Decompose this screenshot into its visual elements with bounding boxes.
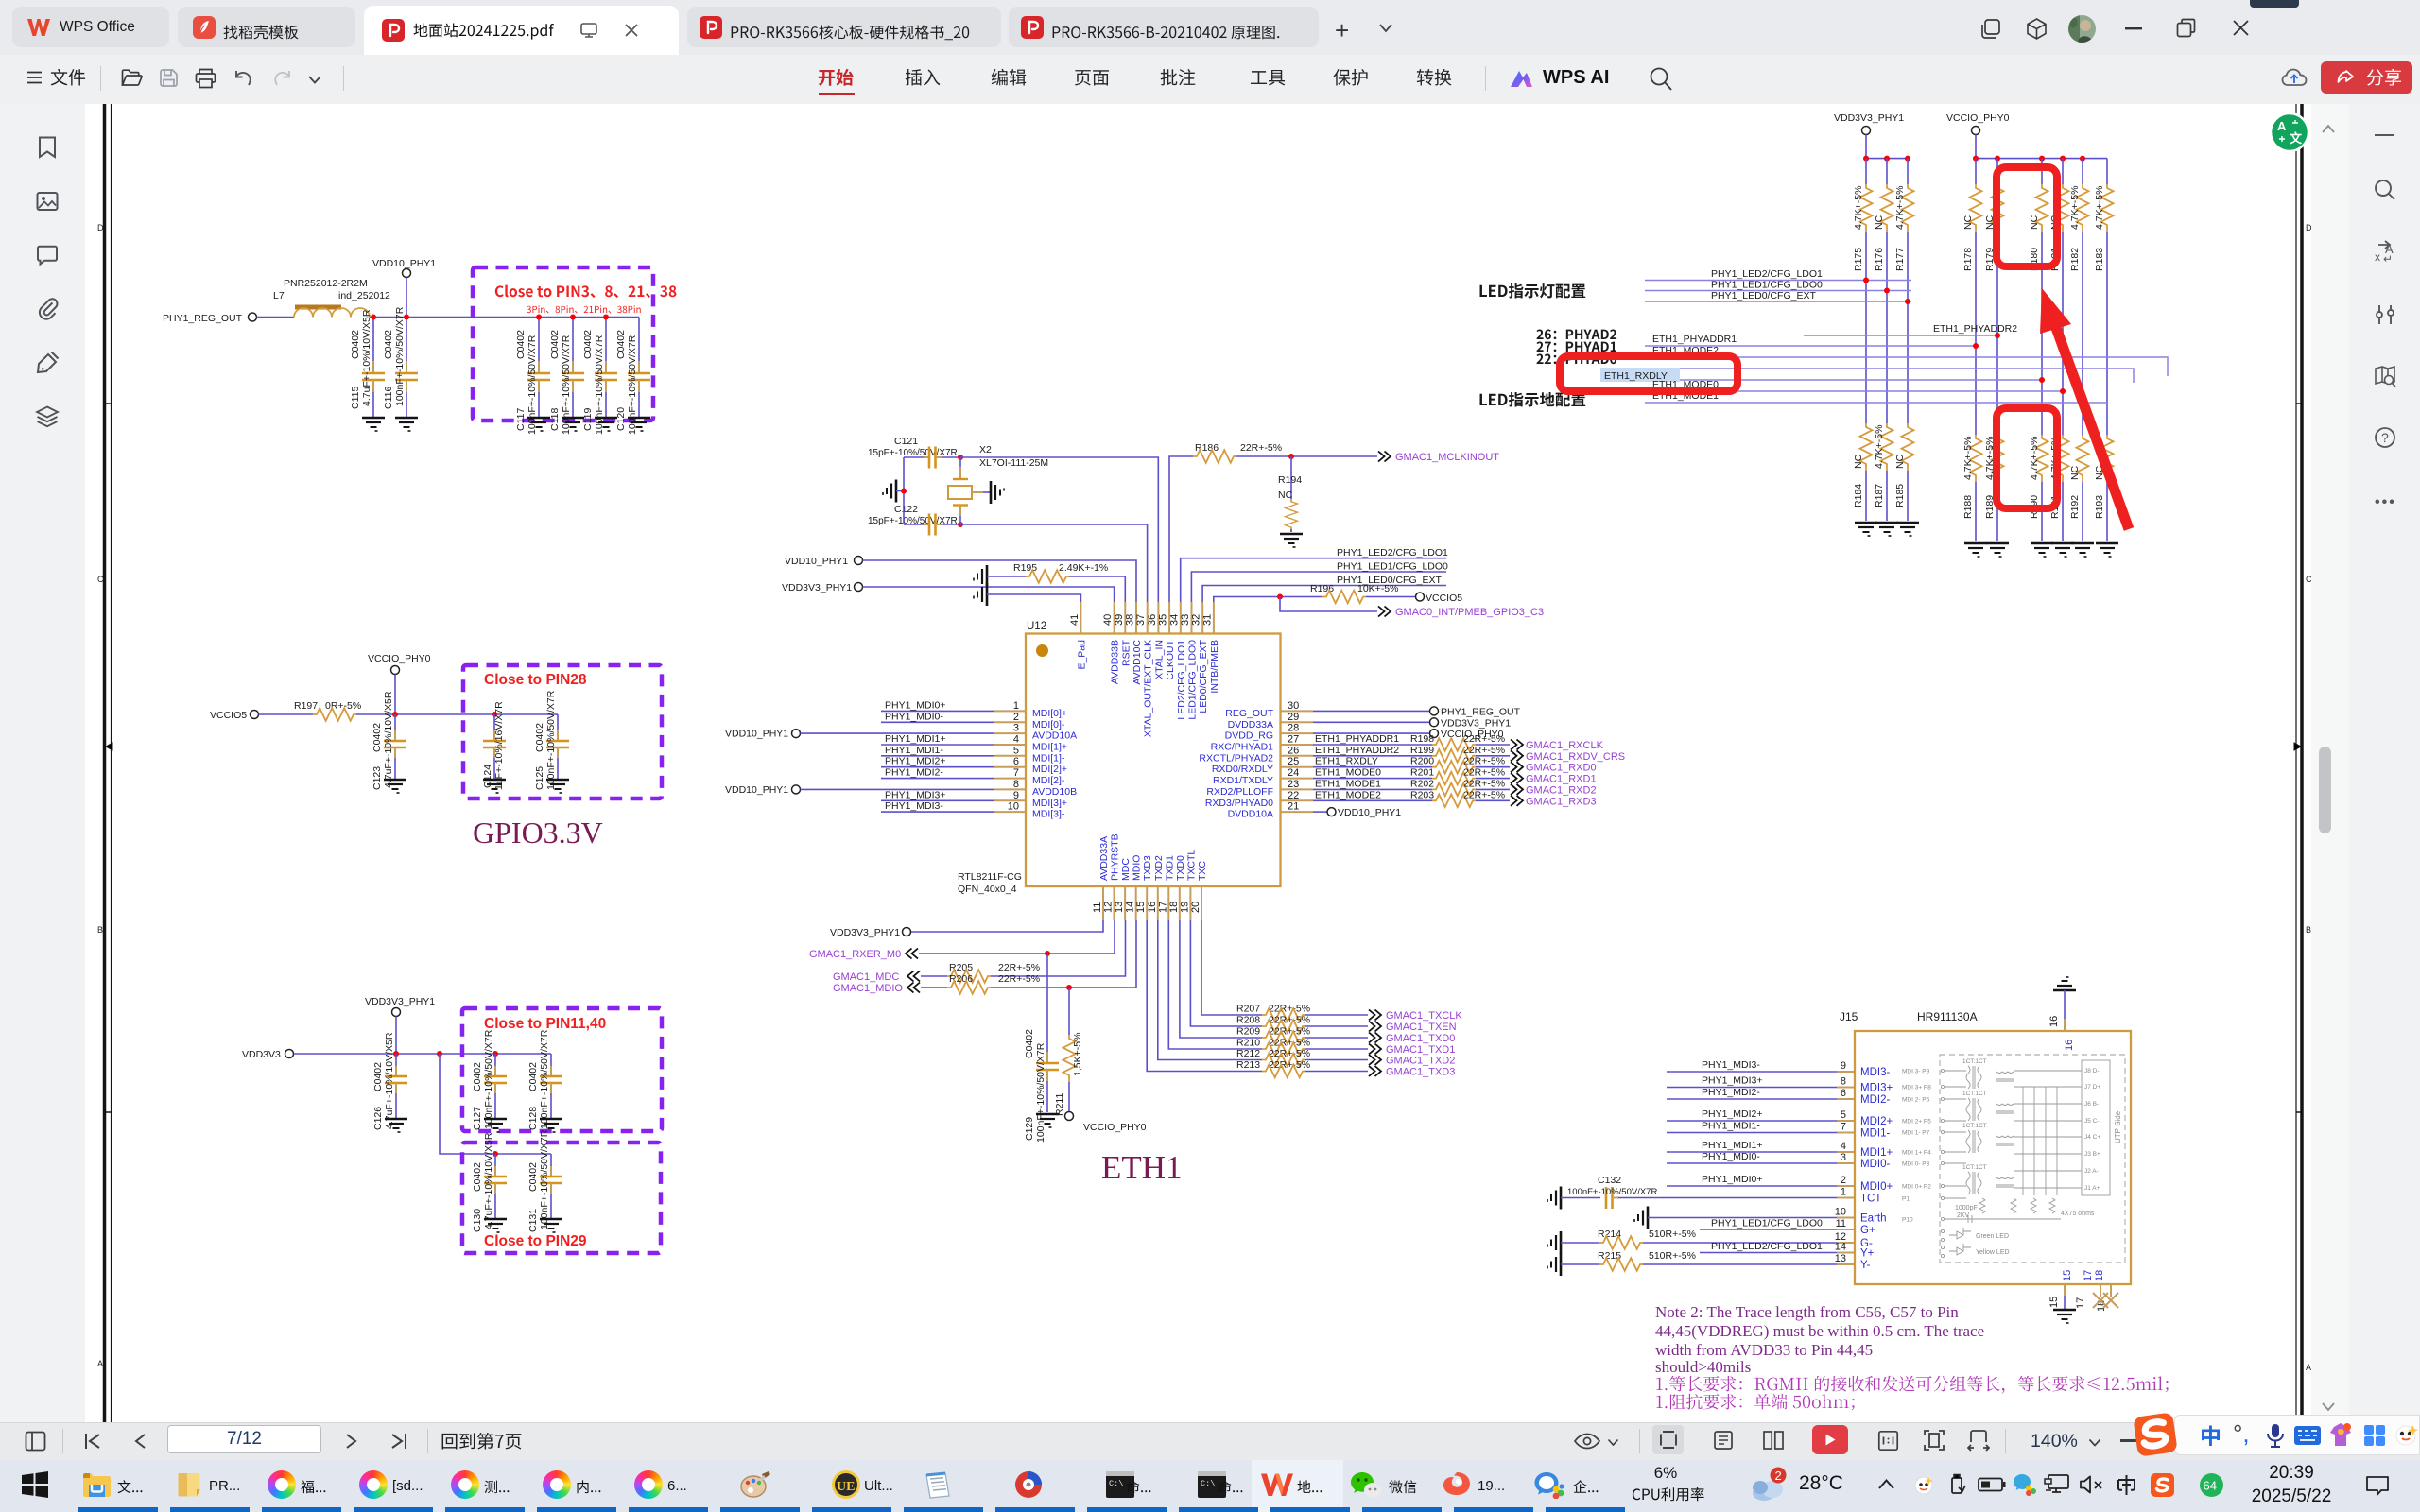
svg-text:J8 D-: J8 D- (2084, 1068, 2100, 1074)
node VDD3V3_PHY1 pin29 (1313, 717, 1511, 729)
svg-text:2KV: 2KV (1957, 1212, 1970, 1219)
wire ETH1_MODE0 (1645, 379, 2066, 394)
svg-text:MDI0+: MDI0+ (1860, 1181, 1893, 1193)
svg-text:NC: NC (1894, 454, 1906, 469)
svg-text:MDI[0]-: MDI[0]- (1032, 719, 1065, 730)
svg-text:C132: C132 (1598, 1175, 1621, 1186)
svg-text:16: 16 (2048, 1016, 2060, 1027)
svg-text:ind_252012: ind_252012 (338, 290, 390, 301)
svg-text:VCCIO5: VCCIO5 (210, 710, 247, 721)
svg-text:C131: C131 (527, 1209, 539, 1232)
svg-text:MDI[2]+: MDI[2]+ (1032, 764, 1067, 775)
resistor R214 510R to pin12 G- (1547, 1228, 1855, 1254)
svg-text:GMAC1_TXD1: GMAC1_TXD1 (1386, 1044, 1455, 1056)
resistor R193 NC (bottom) (2094, 403, 2118, 557)
svg-text:27: 27 (1288, 734, 1299, 746)
svg-text:QFN_40x0_4: QFN_40x0_4 (958, 884, 1017, 895)
svg-text:23: 23 (1288, 779, 1299, 790)
pin 30 REG_OUT (1225, 700, 1313, 719)
capacitor C132 on TCT pin1 (1547, 1175, 1855, 1210)
svg-text:R176: R176 (1874, 248, 1885, 271)
svg-text:NC: NC (2029, 215, 2040, 230)
pin 15 shield ground (2048, 1270, 2076, 1323)
pin 36 XTAL_IN (1147, 602, 1166, 679)
svg-text:C0402: C0402 (527, 1162, 539, 1192)
svg-text:C0402: C0402 (1024, 1029, 1035, 1058)
resistor R186 22R row from pin35 CLKOUT (1169, 456, 1193, 602)
svg-text:P1: P1 (1902, 1196, 1910, 1203)
svg-text:26: 26 (1288, 745, 1299, 756)
svg-text:TXD3: TXD3 (1142, 855, 1153, 881)
pin 18 TXD0 (1168, 855, 1186, 920)
connector J15 body (1840, 1010, 2131, 1284)
svg-text:A: A (97, 1359, 103, 1368)
svg-text:PNR252012-2R2M: PNR252012-2R2M (284, 278, 368, 289)
svg-text:PHY1_LED1/CFG_LDO0: PHY1_LED1/CFG_LDO0 (1711, 1218, 1823, 1229)
svg-text:C119: C119 (582, 408, 594, 431)
svg-text:GMAC0_INT/PMEB_GPIO3_C3: GMAC0_INT/PMEB_GPIO3_C3 (1395, 607, 1544, 618)
transformer inner detail (1902, 1055, 2125, 1263)
red annotation arrow (2040, 288, 2129, 529)
svg-text:Close to PIN28: Close to PIN28 (484, 672, 587, 688)
svg-text:MDI 0- P3: MDI 0- P3 (1902, 1161, 1930, 1168)
svg-text:GMAC1_MDC: GMAC1_MDC (833, 971, 899, 983)
resistor R175 4.7K+-5% (top) (1853, 159, 1873, 281)
resistor R185 NC (bottom) (1894, 301, 1919, 536)
svg-text:C120: C120 (615, 407, 627, 431)
svg-text:VDD3V3: VDD3V3 (242, 1049, 281, 1060)
svg-text:MDI 3+ P8: MDI 3+ P8 (1902, 1085, 1931, 1091)
svg-text:1: 1 (1841, 1187, 1846, 1198)
svg-text:11: 11 (1836, 1218, 1846, 1229)
capacitor C127 (472, 1029, 507, 1132)
svg-text:PHY1_MDI1-: PHY1_MDI1- (885, 745, 943, 756)
resistor R207 22R row GMAC1_TXCLK (1201, 920, 1462, 1022)
node VDD3V3_PHY1 pin11 (830, 920, 1103, 938)
svg-text:MDI[0]+: MDI[0]+ (1032, 708, 1067, 719)
svg-text:x: x (2375, 250, 2380, 264)
svg-text:100nF+-10%/50V/X7R: 100nF+-10%/50V/X7R (627, 335, 638, 435)
svg-text:22R+-5%: 22R+-5% (998, 962, 1040, 973)
svg-text:GMAC1_MDIO: GMAC1_MDIO (833, 983, 903, 994)
svg-text:PHY1_MDI1+: PHY1_MDI1+ (1702, 1140, 1763, 1151)
pin 35 CLKOUT (1158, 602, 1177, 680)
red annotation box over R180 (1996, 167, 2057, 266)
svg-text:AVDD10A: AVDD10A (1032, 730, 1077, 742)
resistor R199 22R row ETH1_PHYADDR2 (1313, 745, 1625, 763)
resistor R203 22R row ETH1_MODE2 (1313, 789, 1597, 807)
svg-text:DVDD_RG: DVDD_RG (1225, 730, 1273, 742)
wire (257, 317, 295, 318)
resistor R176 NC (top) (1874, 159, 1893, 291)
svg-text:A: A (2385, 242, 2394, 256)
svg-text:40: 40 (1102, 614, 1114, 626)
pin 20 TXC (1190, 861, 1208, 920)
svg-text:22: 22 (1288, 790, 1299, 801)
pin 32 LED0/CFG_EXT (1191, 602, 1210, 713)
svg-text:15: 15 (2048, 1297, 2060, 1308)
wire PHY1_MDI0+ to J15 pin 2 (1667, 1174, 1855, 1186)
svg-text:NC: NC (1853, 454, 1864, 469)
svg-text:14: 14 (1835, 1242, 1846, 1253)
svg-text:NC: NC (1962, 215, 1974, 230)
svg-text:J4 C+: J4 C+ (2084, 1134, 2100, 1141)
svg-text:4.7K+-5%: 4.7K+-5% (1894, 186, 1906, 230)
svg-text:PHY1_LED2/CFG_LDO1: PHY1_LED2/CFG_LDO1 (1711, 268, 1823, 280)
svg-text:ETH1_PHYADDR2: ETH1_PHYADDR2 (1315, 745, 1399, 756)
wire PHY1_LED1/CFG_LDO0 (1645, 280, 1911, 291)
svg-text:MDI[3]+: MDI[3]+ (1032, 798, 1067, 809)
svg-text:4.7K+-5%: 4.7K+-5% (2094, 186, 2105, 230)
svg-text:C122: C122 (894, 504, 918, 515)
svg-text:PHY1_MDI3+: PHY1_MDI3+ (1702, 1075, 1763, 1087)
svg-text:PHY1_REG_OUT: PHY1_REG_OUT (163, 313, 243, 324)
svg-text:C128: C128 (527, 1107, 539, 1130)
svg-text:TXCTL: TXCTL (1185, 850, 1197, 881)
svg-text:R194: R194 (1278, 474, 1302, 486)
svg-text:L7: L7 (273, 290, 285, 301)
svg-text:R207: R207 (1236, 1004, 1260, 1015)
svg-text:100nF+-10%/50V/X7R: 100nF+-10%/50V/X7R (1567, 1187, 1657, 1197)
svg-text:C0402: C0402 (472, 1062, 483, 1091)
svg-text:4.7K+-5%: 4.7K+-5% (1962, 437, 1974, 480)
svg-text:10K+-5%: 10K+-5% (1357, 583, 1399, 594)
pin 21 DVDD10A (1228, 801, 1313, 820)
node VDD10_PHY1 pin3 (725, 729, 994, 740)
svg-text:MDIO: MDIO (1132, 855, 1143, 881)
svg-text:Yellow LED: Yellow LED (1976, 1249, 2010, 1256)
pin 22 RXD3/PHYAD0 (1205, 790, 1313, 809)
svg-text:35: 35 (1158, 614, 1169, 626)
resistor R184 NC (bottom) (1853, 281, 1877, 537)
wire PHY1_LED2/CFG_LDO1 (1645, 268, 1911, 281)
svg-text:4.7K+-5%: 4.7K+-5% (2029, 437, 2040, 480)
svg-text:R192: R192 (2069, 495, 2081, 519)
svg-text:22R+-5%: 22R+-5% (1463, 789, 1505, 800)
wire PHY1_LED0/CFG_EXT (1645, 290, 1911, 301)
svg-text:10: 10 (1835, 1207, 1846, 1218)
svg-text:J7 D+: J7 D+ (2084, 1084, 2100, 1091)
svg-text:1CT:1CT: 1CT:1CT (1962, 1058, 1987, 1065)
svg-text:Y-: Y- (1860, 1260, 1871, 1271)
svg-text:MDI1-: MDI1- (1860, 1128, 1890, 1140)
svg-text:Earth: Earth (1860, 1213, 1887, 1225)
svg-text:39: 39 (1114, 614, 1125, 626)
capacitor C115 (350, 309, 385, 431)
svg-text:GMAC1_MCLKINOUT: GMAC1_MCLKINOUT (1395, 452, 1499, 463)
wire PHY1_MDI3+ to J15 pin 8 (1667, 1075, 1855, 1088)
wire VDD3V3_PHY1 bus (1866, 158, 1908, 160)
svg-text:64: 64 (2204, 1479, 2217, 1493)
svg-text:XTAL_OUT/EXT_CLK: XTAL_OUT/EXT_CLK (1143, 640, 1154, 737)
svg-text:6: 6 (1013, 756, 1019, 767)
svg-text:R200: R200 (1410, 756, 1434, 767)
svg-text:510R+-5%: 510R+-5% (1649, 1250, 1696, 1262)
svg-text:RXD0/RXDLY: RXD0/RXDLY (1212, 764, 1273, 775)
resistor R192 NC (bottom) (2069, 403, 2094, 557)
wire left vertical + ground (903, 457, 905, 524)
svg-text:C0402: C0402 (549, 330, 561, 359)
pin 39 RSET (1114, 602, 1132, 666)
pin 41 E_Pad (1069, 602, 1088, 670)
svg-text:R210: R210 (1236, 1038, 1260, 1049)
svg-text:文: 文 (2290, 131, 2303, 146)
pin 31 INTB/PMEB (1201, 602, 1220, 694)
svg-text:C0402: C0402 (515, 330, 527, 359)
pin 26 RXCTL/PHYAD2 (1199, 745, 1313, 764)
svg-text:MDI 2+ P5: MDI 2+ P5 (1902, 1119, 1931, 1125)
wire PHY1_MDI1+ (881, 733, 994, 745)
svg-text:C0402: C0402 (615, 330, 627, 359)
capacitor C122 (868, 504, 960, 536)
svg-text:G+: G+ (1860, 1225, 1875, 1236)
svg-text:DVDD33A: DVDD33A (1228, 719, 1273, 730)
capacitor C121 (868, 436, 960, 469)
svg-text:VCCIO_PHY0: VCCIO_PHY0 (1083, 1122, 1147, 1133)
wire PHY1_MDI3- (881, 800, 994, 812)
resistor R181 NC (top) (2049, 159, 2069, 391)
svg-text:PHY1_MDI0+: PHY1_MDI0+ (885, 699, 946, 711)
svg-text:J6 B-: J6 B- (2084, 1101, 2099, 1108)
svg-text:C117: C117 (515, 408, 527, 431)
svg-text:GMAC1_TXD2: GMAC1_TXD2 (1386, 1056, 1455, 1067)
svg-text:width from AVDD33 to Pin 44,45: width from AVDD33 to Pin 44,45 (1655, 1341, 1873, 1359)
pin 11 AVDD33A (1092, 836, 1110, 920)
pin 13 MDC (1114, 858, 1132, 920)
svg-text:41: 41 (1069, 614, 1080, 626)
svg-text:1000pF: 1000pF (1955, 1205, 1978, 1211)
svg-text:PHY1_MDI2+: PHY1_MDI2+ (1702, 1108, 1763, 1120)
svg-text:ETH1_MODE0: ETH1_MODE0 (1315, 767, 1381, 779)
svg-text:MDI2+: MDI2+ (1860, 1116, 1893, 1127)
resistor R179 NC (top) (1984, 159, 2004, 335)
svg-text:1CT:1CT: 1CT:1CT (1962, 1164, 1987, 1171)
svg-text:5: 5 (1841, 1109, 1846, 1121)
node PHY1_REG_OUT pin30 (1313, 706, 1521, 717)
svg-text:17: 17 (1157, 902, 1168, 913)
pin 5 MDI[1]- (994, 745, 1065, 764)
pin 16 shield ground (2048, 977, 2076, 1051)
svg-text:13: 13 (1835, 1253, 1846, 1264)
resistor R212 22R row GMAC1_TXD2 (1158, 920, 1456, 1067)
svg-text:LED1/CFG_LDO0: LED1/CFG_LDO0 (1187, 640, 1199, 720)
svg-text:VCCIO5: VCCIO5 (1426, 593, 1462, 604)
svg-text:36: 36 (1147, 614, 1158, 626)
svg-text:MDI[3]-: MDI[3]- (1032, 809, 1065, 820)
svg-text:4: 4 (1841, 1141, 1846, 1152)
capacitor C131 (527, 1129, 562, 1232)
svg-text:R193: R193 (2094, 495, 2105, 519)
svg-text:15: 15 (1135, 902, 1147, 913)
svg-text:22R+-5%: 22R+-5% (1269, 1026, 1310, 1038)
pin 1 MDI[0]+ (994, 700, 1067, 719)
svg-text:3: 3 (1013, 723, 1019, 734)
svg-text:XL7OI-111-25M: XL7OI-111-25M (979, 457, 1048, 469)
svg-text:22R+-5%: 22R+-5% (1240, 442, 1282, 454)
svg-text:PHY1_REG_OUT: PHY1_REG_OUT (1441, 706, 1521, 717)
svg-text:10: 10 (1008, 801, 1019, 813)
svg-text:REG_OUT: REG_OUT (1225, 708, 1273, 719)
pin 7 MDI[2]- (994, 767, 1065, 786)
pin 17 TXD1 (1157, 855, 1175, 920)
svg-text:ETH1_RXDLY: ETH1_RXDLY (1315, 756, 1378, 767)
svg-text:MDI3-: MDI3- (1860, 1067, 1890, 1078)
svg-text:C123: C123 (372, 766, 383, 790)
svg-text:VDD3V3_PHY1: VDD3V3_PHY1 (1834, 112, 1904, 124)
wire PHY1_MDI1- to J15 pin 7 (1667, 1121, 1855, 1133)
svg-text:MDI3+: MDI3+ (1860, 1083, 1893, 1094)
wire pin32 LED0 (1202, 586, 1446, 603)
svg-text:GMAC1_TXEN: GMAC1_TXEN (1386, 1022, 1457, 1033)
svg-text:ETH1_PHYADDR2: ETH1_PHYADDR2 (1933, 323, 2017, 335)
svg-text:4.7K+-5%: 4.7K+-5% (1874, 425, 1885, 469)
pin 6 MDI[2]+ (994, 756, 1067, 775)
svg-text:ETH1_PHYADDR1: ETH1_PHYADDR1 (1315, 733, 1399, 745)
svg-text:PHY1_LED1/CFG_LDO0: PHY1_LED1/CFG_LDO0 (1337, 561, 1448, 573)
svg-text:PHY1_LED2/CFG_LDO1: PHY1_LED2/CFG_LDO1 (1337, 547, 1448, 558)
svg-text:ETH1: ETH1 (1101, 1149, 1183, 1186)
wire PHY1_MDI2- (881, 767, 994, 779)
svg-text:1uF+-10%/16V/X7R: 1uF+-10%/16V/X7R (493, 701, 505, 790)
svg-text:J5 C-: J5 C- (2084, 1118, 2100, 1125)
svg-text:VDD10_PHY1: VDD10_PHY1 (725, 729, 788, 740)
node VDD10_PHY1 pin21 (1313, 807, 1401, 818)
pin 37 XTAL_OUT/EXT_CLK (1135, 602, 1154, 737)
resistor R211 1.5K pull to VCCIO_PHY0 (1054, 988, 1147, 1133)
svg-text:TXD0: TXD0 (1175, 855, 1186, 881)
pin 9 MDI[3]+ (994, 790, 1067, 809)
svg-text:22R+-5%: 22R+-5% (1463, 778, 1505, 789)
requirement note line 2 (1656, 1394, 1854, 1410)
wire C122 row to pin37 (960, 524, 1148, 602)
resistor R215 510R to pin13 Y- (1547, 1250, 1855, 1276)
svg-text:NC: NC (2069, 465, 2081, 480)
svg-text:MDI0-: MDI0- (1860, 1159, 1890, 1170)
svg-text:Note 2: The Trace length from: Note 2: The Trace length from C56, C57 t… (1655, 1303, 1959, 1321)
svg-text:PHY1_MDI3+: PHY1_MDI3+ (885, 789, 946, 800)
capacitor C118 (549, 315, 584, 436)
svg-text:33: 33 (1180, 614, 1191, 626)
svg-text:9: 9 (1013, 790, 1019, 801)
svg-text:R184: R184 (1853, 484, 1864, 507)
svg-text:J3 B+: J3 B+ (2084, 1151, 2100, 1158)
resistor R191 4.7K+-5% (bottom) (2049, 391, 2074, 557)
svg-text:100nF+-10%/50V/X7R: 100nF+-10%/50V/X7R (539, 1129, 550, 1229)
svg-text:R212: R212 (1236, 1048, 1260, 1059)
purple dashed box Close to PIN3 8 21 38 (473, 267, 653, 421)
pin 24 RXD1/TXDLY (1213, 767, 1313, 786)
pin 3 AVDD10A (994, 723, 1077, 742)
svg-text:11: 11 (1092, 902, 1103, 913)
svg-text:C118: C118 (549, 408, 561, 431)
pin 40 AVDD33B (1102, 602, 1121, 684)
svg-text:A: A (2277, 119, 2287, 133)
resistor R188 4.7K+-5% (bottom) (1962, 346, 1987, 557)
svg-text:C0402: C0402 (372, 723, 383, 752)
svg-text:VCCIO_PHY0: VCCIO_PHY0 (1946, 112, 2010, 124)
svg-text:PHY1_MDI3-: PHY1_MDI3- (1702, 1059, 1760, 1071)
svg-text:15: 15 (2062, 1270, 2073, 1281)
svg-text:PHY1_LED0/CFG_EXT: PHY1_LED0/CFG_EXT (1711, 290, 1816, 301)
wire (unnamed net) (1645, 369, 2134, 383)
svg-text:MDC: MDC (1120, 858, 1132, 881)
svg-text:18: 18 (2094, 1270, 2105, 1281)
avatar (2068, 15, 2096, 43)
svg-text:PHY1_MDI2-: PHY1_MDI2- (1702, 1087, 1760, 1098)
svg-text:VDD10_PHY1: VDD10_PHY1 (1338, 807, 1401, 818)
svg-text:J2 A-: J2 A- (2084, 1168, 2099, 1175)
capacitor C128 (527, 1029, 562, 1132)
capacitor C130 (472, 1132, 507, 1232)
svg-text:4.7uF+-10%/10V/X5R: 4.7uF+-10%/10V/X5R (384, 1032, 395, 1129)
svg-text:100nF+-10%/50V/X7R: 100nF+-10%/50V/X7R (527, 335, 538, 435)
pin 34 LED2/CFG_LDO1 (1168, 602, 1187, 720)
svg-text:C: C (97, 575, 104, 584)
resistor R196 10K row from pin31 (1214, 597, 1322, 603)
svg-text:GMAC1_RXDV_CRS: GMAC1_RXDV_CRS (1526, 751, 1625, 763)
svg-text:VDD3V3_PHY1: VDD3V3_PHY1 (1441, 717, 1511, 729)
svg-text:1,5K+-5%: 1,5K+-5% (1072, 1033, 1083, 1076)
svg-text:R188: R188 (1962, 495, 1974, 519)
svg-text:C127: C127 (472, 1107, 483, 1130)
svg-text:GMAC1_TXD3: GMAC1_TXD3 (1386, 1067, 1455, 1078)
svg-text:VDD10_PHY1: VDD10_PHY1 (725, 784, 788, 796)
svg-text:D: D (97, 223, 104, 232)
svg-text:XTAL_IN: XTAL_IN (1153, 640, 1165, 679)
svg-text:MDI[1]+: MDI[1]+ (1032, 742, 1067, 753)
svg-text:MDI1+: MDI1+ (1860, 1147, 1893, 1159)
svg-text:B: B (97, 925, 103, 935)
svg-text:UTP Side: UTP Side (2114, 1110, 2122, 1143)
svg-text:GMAC1_RXER_M0: GMAC1_RXER_M0 (809, 949, 901, 960)
wire PHY1_MDI3+ (881, 789, 994, 800)
svg-text:GMAC1_TXD0: GMAC1_TXD0 (1386, 1033, 1455, 1044)
svg-text:PHYRSTB: PHYRSTB (1110, 833, 1121, 881)
resistor R190 4.7K+-5% (bottom) (2029, 380, 2053, 557)
svg-text:29: 29 (1288, 712, 1299, 723)
resistor R177 4.7K+-5% (top) (1894, 159, 1914, 301)
svg-text:18: 18 (1168, 902, 1180, 913)
svg-text:UE: UE (837, 1480, 855, 1494)
capacitor C119 (582, 315, 617, 436)
svg-text:VDD3V3_PHY1: VDD3V3_PHY1 (365, 996, 435, 1007)
svg-text:14: 14 (1125, 902, 1136, 913)
svg-text:24: 24 (1288, 767, 1299, 779)
svg-text:RXC/PHYAD1: RXC/PHYAD1 (1211, 742, 1273, 753)
svg-text:RXCTL/PHYAD2: RXCTL/PHYAD2 (1199, 752, 1273, 764)
svg-text:NC: NC (1874, 215, 1885, 230)
red annotation box over ETH1_RXDLY (1560, 356, 1737, 391)
svg-text:1: 1 (1013, 700, 1019, 712)
svg-text:Close to PIN11,40: Close to PIN11,40 (484, 1016, 606, 1032)
svg-text:R187: R187 (1874, 484, 1885, 507)
svg-text:INTB/PMEB: INTB/PMEB (1209, 640, 1220, 694)
svg-text:P10: P10 (1902, 1217, 1913, 1224)
svg-text:22R+-5%: 22R+-5% (1269, 1038, 1310, 1049)
svg-text:GMAC1_TXCLK: GMAC1_TXCLK (1386, 1010, 1462, 1022)
pin 19 TXCTL (1179, 850, 1197, 920)
resistor R206 22R row GMAC1_MDIO to pin14 (833, 920, 1136, 994)
svg-text:4.7uF+-10%/10V/X5R: 4.7uF+-10%/10V/X5R (483, 1132, 494, 1229)
resistor R183 4.7K+-5% (top) (2094, 159, 2114, 403)
svg-text:should>40mils: should>40mils (1655, 1358, 1751, 1376)
svg-text:9: 9 (1841, 1060, 1846, 1072)
svg-text:16: 16 (2064, 1039, 2075, 1051)
svg-text:ETH1_MODE2: ETH1_MODE2 (1315, 789, 1381, 800)
svg-text:44,45(VDDREG) must be within 0: 44,45(VDDREG) must be within 0.5 cm. The… (1655, 1322, 1984, 1340)
red annotation box over R190 (1996, 408, 2057, 508)
schematic sheet frame (105, 104, 2303, 1422)
